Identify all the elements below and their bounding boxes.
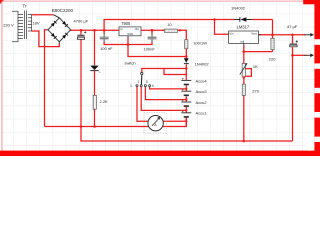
label 4700 uF — [74, 19, 89, 24]
svg-text:47 µF: 47 µF — [287, 24, 298, 29]
capacitor 100nF first — [100, 33, 109, 42]
resistor 2.2K — [93, 95, 96, 109]
wire secondary bottom to AC2 rail — [32, 31, 60, 47]
wire pot wiper loop — [244, 69, 251, 77]
wire LM317 vin drop — [215, 20, 229, 35]
svg-text:230 V: 230 V — [3, 22, 14, 27]
wire plus rail from bridge to 7905 — [70, 29, 119, 31]
pin number 1 — [130, 84, 132, 88]
junction tap Accu2 — [185, 109, 187, 111]
components layer — [3, 4, 314, 143]
label 1N4002 D3 — [195, 61, 210, 66]
label 2.2K — [100, 99, 109, 104]
node 10R right pin — [179, 29, 181, 31]
junction ground 4700uF — [80, 125, 83, 128]
svg-text:220: 220 — [269, 57, 276, 62]
resistor 100/1W — [185, 40, 188, 49]
svg-text:Vout: Vout — [251, 32, 257, 36]
wire 100nF2 top lead — [151, 30, 153, 34]
label 220 — [269, 57, 276, 62]
wire adj to pot — [243, 52, 245, 64]
label B80C2200 — [52, 8, 74, 13]
wire bridge minus corner down to ground rail — [45, 30, 47, 127]
diode D2 1N4002 horizontal — [234, 17, 252, 22]
label 1K — [253, 64, 258, 69]
switch contact 2 — [140, 85, 142, 87]
border frame — [0, 0, 320, 156]
wire pot to 270 — [243, 77, 245, 84]
wires layer — [32, 15, 306, 141]
battery Accu1 — [181, 110, 191, 117]
potentiometer 1K — [240, 63, 248, 77]
junction 100/1W bottom — [185, 55, 188, 58]
wire 7905 gnd drop to switch rail — [128, 45, 186, 57]
wire 10R to 100/1W — [178, 30, 187, 40]
battery Accu4 — [181, 78, 191, 85]
svg-text:3: 3 — [146, 80, 148, 84]
switch contact 1 — [136, 85, 138, 87]
transformer Tr — [12, 11, 32, 42]
svg-text:1: 1 — [130, 84, 132, 88]
resistor 270 — [242, 84, 245, 95]
svg-text:100nF: 100nF — [144, 46, 156, 51]
wire ground rail bottom left — [45, 126, 149, 128]
svg-text:1N4002: 1N4002 — [195, 61, 210, 66]
zener diode — [90, 66, 100, 73]
wire 220 leads — [272, 35, 274, 52]
regulator 7905 — [119, 27, 141, 38]
junction 100nF2 top — [151, 29, 154, 32]
regulator LM317 — [229, 31, 261, 46]
svg-text:GND: GND — [127, 32, 133, 36]
svg-text:Vin: Vin — [229, 32, 233, 36]
label Accu4 — [196, 78, 208, 83]
svg-text:switch: switch — [125, 61, 136, 66]
junction D2 to vout — [271, 34, 274, 37]
svg-text:2: 2 — [138, 80, 140, 84]
svg-text:7905: 7905 — [121, 21, 131, 26]
switch contact 4 — [149, 85, 151, 87]
label 270 — [252, 89, 259, 94]
wire diode D3 to battery column segments — [185, 64, 187, 126]
resistor 220 — [271, 38, 274, 49]
junction 47uF top — [291, 34, 294, 37]
svg-text:18V: 18V — [32, 21, 39, 26]
label 100/1W — [193, 41, 207, 46]
svg-text:10: 10 — [167, 22, 172, 27]
wire 100nF1 branch and mid ground rail — [104, 30, 152, 44]
output arrow plus — [305, 33, 315, 37]
svg-text:2.2K: 2.2K — [100, 99, 109, 104]
wire 7905 gnd — [127, 38, 129, 45]
junction LM317 adj — [243, 50, 246, 53]
svg-text:Out: Out — [135, 27, 139, 31]
svg-text:4: 4 — [152, 84, 154, 88]
wire top rail 19 — [104, 20, 272, 31]
label 7905 — [121, 21, 131, 26]
pin number 4 — [152, 84, 154, 88]
svg-text:B80C2200: B80C2200 — [52, 8, 74, 13]
label 100 nF first — [100, 46, 113, 51]
wire meter right to battery column — [163, 118, 187, 127]
svg-text:Accu2: Accu2 — [196, 100, 208, 105]
wire switch contact 4 tap — [150, 87, 187, 89]
svg-text:100 nF: 100 nF — [100, 46, 113, 51]
svg-text:100/1W: 100/1W — [193, 41, 207, 46]
wire 47uF vertical to lower rail — [292, 35, 294, 141]
resistor 10 — [164, 29, 177, 32]
bridge diode bottom-right — [62, 33, 68, 39]
capacitor 4700uF — [77, 31, 86, 39]
junction 4700uF top — [80, 29, 83, 32]
junction zener top — [93, 29, 96, 32]
bridge diode bottom-left — [51, 33, 57, 39]
label 18V — [32, 21, 39, 26]
label Tr — [23, 4, 28, 9]
pin number 3 — [146, 80, 148, 84]
svg-text:Accu4: Accu4 — [196, 78, 208, 83]
bridge diode top-right — [62, 21, 68, 27]
junction LM317 vin drop — [213, 18, 216, 21]
label 230 V — [3, 22, 14, 27]
wire output minus — [293, 54, 306, 56]
junction switch pole node — [185, 67, 187, 69]
ammeter A — [144, 113, 166, 134]
junction ground 2.2K — [93, 125, 96, 128]
svg-text:4700 µF: 4700 µF — [74, 19, 89, 24]
label 1N4002 D2 — [231, 5, 246, 10]
svg-text:270: 270 — [252, 89, 259, 94]
junction tap Accu3 — [185, 98, 187, 100]
label Accu1 — [196, 111, 208, 116]
wire switch contact 3 tap — [145, 87, 186, 100]
wire LM317 vout rail — [259, 34, 306, 36]
wire 100/1W bottom to node — [185, 49, 187, 59]
junction tap Accu1 — [185, 120, 187, 122]
svg-text:adj: adj — [240, 40, 244, 44]
capacitor 100nF second — [148, 33, 157, 42]
wire 7905 out to 10R — [141, 29, 164, 31]
bridge diode top-left — [51, 21, 57, 27]
node 10R left pin — [162, 29, 164, 31]
svg-text:LM317: LM317 — [237, 24, 250, 29]
junction 270 bottom rail — [243, 140, 246, 143]
label 10 — [167, 22, 172, 27]
junction 100nF1 top — [103, 29, 106, 32]
diode D3 1N4002 vertical — [184, 58, 189, 64]
svg-text:Accu1: Accu1 — [196, 111, 208, 116]
label 100nF second — [144, 46, 156, 51]
junction output minus — [291, 54, 294, 57]
svg-text:Accu3: Accu3 — [196, 89, 208, 94]
pin number 2 — [138, 80, 140, 84]
grid graph paper — [2, 1, 318, 155]
output arrow minus — [305, 54, 315, 58]
wire switch contact 2 tap — [141, 87, 186, 111]
junction 7905 gnd — [127, 43, 130, 46]
junction tap Accu4 — [185, 88, 187, 90]
switch contact 3 — [144, 85, 146, 87]
switch pole — [141, 72, 143, 74]
junction pot wiper bottom — [243, 76, 245, 78]
label LM317 — [237, 24, 250, 29]
wire secondary top to bridge — [32, 14, 54, 16]
battery Accu2 — [181, 100, 191, 107]
label Accu2 — [196, 100, 208, 105]
svg-text:Tr: Tr — [23, 4, 28, 9]
label 47 uF — [287, 24, 298, 29]
label switch — [125, 61, 136, 66]
battery Accu3 — [181, 89, 191, 96]
wire 4700uF branch — [80, 30, 82, 126]
svg-text:1K: 1K — [253, 64, 258, 69]
wire zener branch — [94, 30, 96, 126]
wire diode D2 vertical link — [272, 20, 274, 35]
wire switch contact 1 tap — [137, 87, 186, 122]
capacitor 47uF — [290, 40, 298, 46]
bridge rectifier B80C2200 — [46, 15, 70, 44]
label Accu3 — [196, 89, 208, 94]
svg-text:1N4002: 1N4002 — [231, 5, 246, 10]
wire drop to lower ground rail — [81, 127, 293, 142]
wire switch pole to cathode node — [142, 69, 187, 75]
wire 270 to lower rail — [243, 95, 245, 141]
switch wiper — [140, 75, 142, 85]
wire LM317 adj to 220 bottom — [244, 45, 273, 51]
